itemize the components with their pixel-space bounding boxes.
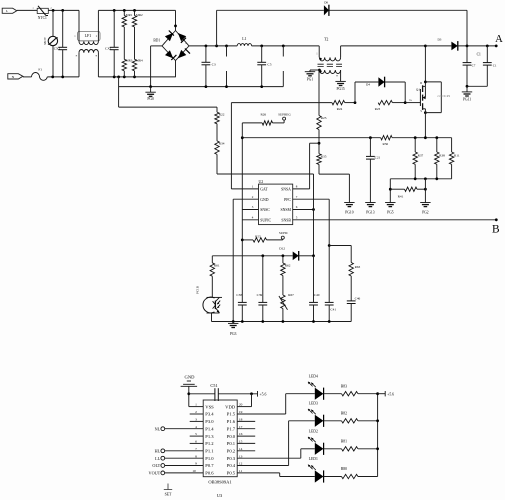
- resistor R62: [282, 256, 284, 263]
- resistor R11: [451, 138, 453, 152]
- svg-text:13: 13: [239, 454, 243, 458]
- inductor L1: [237, 44, 251, 46]
- resistor R55: [241, 239, 244, 242]
- svg-text:PFC: PFC: [284, 198, 291, 202]
- svg-text:SNSA: SNSA: [281, 188, 291, 192]
- svg-text:LED4: LED4: [309, 374, 318, 378]
- svg-text:17: 17: [239, 425, 243, 429]
- svg-text:HL: HL: [155, 448, 161, 453]
- svg-text:P0.7: P0.7: [205, 463, 214, 468]
- svg-text:L1: L1: [242, 37, 246, 41]
- svg-text:P1.7: P1.7: [227, 426, 236, 431]
- svg-text:CX1: CX1: [105, 47, 112, 51]
- resistor MR4: [132, 59, 136, 71]
- svg-text:A: A: [495, 34, 503, 45]
- capacitor C40: [313, 256, 315, 303]
- svg-text:PC1B: PC1B: [195, 285, 199, 294]
- svg-text:11: 11: [239, 469, 243, 473]
- node junction source sense: [424, 136, 427, 139]
- wire pin4 SUPIC: [242, 219, 258, 221]
- node junction NTC-MOV: [52, 9, 55, 12]
- resistor R37: [414, 138, 416, 152]
- wire pin8 SNSA jog: [293, 188, 310, 190]
- wire R22 to R34: [216, 124, 218, 141]
- wire pin5 SNSB B line: [293, 219, 497, 221]
- wire pin19 to LED4: [237, 413, 286, 415]
- svg-text:C46: C46: [355, 296, 361, 300]
- svg-text:L: L: [6, 9, 8, 13]
- svg-text:PG3: PG3: [230, 332, 237, 336]
- wire primary ground rail: [119, 86, 283, 88]
- svg-text:6: 6: [195, 440, 197, 444]
- svg-text:D4: D4: [366, 83, 370, 87]
- net +5.6 left: [257, 391, 259, 397]
- stub jumper W1 lower: [226, 71, 228, 87]
- svg-text:R23: R23: [375, 107, 381, 111]
- wire pin2 GND: [233, 198, 258, 200]
- wire SUPIC vertical: [241, 138, 243, 303]
- svg-text:C38: C38: [236, 293, 242, 297]
- svg-text:3: 3: [195, 418, 197, 422]
- svg-text:15: 15: [239, 440, 243, 444]
- svg-text:7: 7: [296, 195, 298, 199]
- svg-text:P0.2: P0.2: [227, 449, 236, 454]
- diode D4: [378, 77, 384, 87]
- capacitor C46: [350, 276, 352, 301]
- svg-text:S: S: [420, 110, 422, 113]
- node junction R37 top: [414, 136, 417, 139]
- svg-text:SUPIC: SUPIC: [279, 231, 289, 235]
- svg-text:GAT: GAT: [260, 188, 268, 192]
- resistor R26: [262, 121, 272, 125]
- svg-text:7: 7: [195, 447, 197, 451]
- svg-text:BD1: BD1: [153, 39, 160, 43]
- capacitor C3: [205, 46, 207, 62]
- net port SUPREG: [273, 122, 285, 124]
- svg-text:R24: R24: [337, 107, 343, 111]
- svg-text:N: N: [12, 75, 15, 79]
- svg-text:MOV: MOV: [43, 36, 47, 44]
- svg-text:C21: C21: [375, 155, 381, 159]
- capacitor CX1: [113, 9, 116, 12]
- wire R25 to R35: [318, 130, 320, 154]
- svg-text:R11: R11: [454, 154, 460, 158]
- ground PG1: [309, 70, 311, 72]
- MCU U3 box: [203, 400, 237, 477]
- resistor R22: [216, 107, 218, 112]
- svg-text:R37: R37: [418, 154, 424, 158]
- node A terminal: [495, 45, 498, 48]
- svg-text:1: 1: [252, 185, 254, 189]
- svg-text:R82: R82: [341, 412, 347, 416]
- LED LED3: [315, 415, 324, 427]
- svg-text:4: 4: [195, 425, 197, 429]
- wire D3 to A: [458, 45, 496, 47]
- resistor R80: [324, 476, 342, 478]
- bridge diode bottom-right: [178, 50, 186, 58]
- svg-text:P0.4: P0.4: [227, 463, 236, 468]
- resistor R36: [381, 136, 392, 140]
- node junction CX2 top: [61, 9, 64, 12]
- node junction R62 top: [282, 254, 285, 257]
- node junction C3 bottom: [205, 85, 208, 88]
- U3 short stubs left: [190, 413, 204, 415]
- wire bridge negative to ground rail: [151, 45, 162, 47]
- node junction C1 top: [486, 45, 489, 48]
- svg-text:20: 20: [239, 403, 243, 407]
- capacitor C38: [238, 301, 247, 303]
- node junction C5 top: [260, 45, 263, 48]
- svg-text:G: G: [410, 98, 413, 102]
- svg-text:P1.3: P1.3: [205, 434, 214, 439]
- svg-text:2: 2: [96, 35, 98, 38]
- bridge rectifier BD1: [162, 31, 189, 61]
- ground PG11: [466, 86, 468, 92]
- wire top rail LF1 to bridge: [98, 9, 175, 11]
- node junction D4 left: [354, 101, 357, 104]
- svg-text:SNSM: SNSM: [281, 208, 292, 212]
- resistor MR3: [122, 59, 126, 71]
- svg-text:R80: R80: [341, 467, 347, 471]
- svg-text:MR1: MR1: [126, 13, 133, 17]
- svg-text:U2: U2: [259, 180, 264, 184]
- net port SUPIC: [267, 239, 283, 241]
- svg-text:10: 10: [192, 469, 196, 473]
- resistor R23: [378, 100, 392, 104]
- svg-text:NL: NL: [155, 426, 161, 431]
- wire SNSM vertical: [313, 174, 315, 256]
- svg-text:Q1: Q1: [416, 87, 420, 91]
- capacitor C39: [262, 256, 264, 303]
- optocoupler PC1B: [211, 276, 213, 297]
- svg-text:MR2: MR2: [136, 13, 143, 17]
- svg-text:R81: R81: [341, 440, 347, 444]
- connector pin HL: [161, 449, 165, 453]
- connector pin NL: [161, 427, 165, 431]
- svg-text:1: 1: [195, 403, 197, 407]
- wire D12 row: [212, 255, 292, 257]
- wire gate to Q1: [405, 102, 420, 104]
- wire opto emitter to ground rail: [211, 313, 213, 322]
- svg-text:C1: C1: [493, 63, 497, 67]
- svg-text:6: 6: [296, 205, 298, 209]
- svg-text:P0.1: P0.1: [227, 441, 236, 446]
- svg-text:PG11: PG11: [463, 97, 471, 101]
- svg-text:R25: R25: [321, 116, 327, 120]
- svg-text:B: B: [492, 223, 500, 235]
- svg-text:PG1: PG1: [307, 78, 314, 82]
- stub jumper W1 upper: [226, 46, 228, 57]
- svg-text:14: 14: [239, 447, 243, 451]
- svg-text:CX2: CX2: [54, 47, 61, 51]
- svg-text:R35: R35: [321, 154, 327, 158]
- wire GND to C51 rail: [188, 386, 190, 406]
- wire SUPREG branch: [241, 123, 243, 138]
- bridge diode top-left: [165, 33, 173, 41]
- resistor R35: [317, 154, 321, 165]
- svg-text:SNSC: SNSC: [260, 208, 270, 212]
- svg-text:C40: C40: [314, 293, 320, 297]
- wire R35 to PG10: [318, 164, 320, 174]
- capacitor C7: [466, 46, 468, 63]
- wire D12 to SNSM node: [299, 255, 314, 257]
- node junction PG0: [149, 85, 152, 88]
- wire R34 to SNSM line: [216, 154, 218, 174]
- wire boost top rail right leg: [466, 10, 468, 46]
- resistor R34: [215, 141, 219, 155]
- svg-text:+5.6: +5.6: [387, 393, 394, 397]
- resistor MR2: [133, 9, 136, 12]
- svg-text:R26: R26: [260, 113, 266, 117]
- resistor R63: [350, 246, 352, 263]
- svg-text:1: 1: [32, 7, 34, 10]
- wire pin12 to LED3: [237, 465, 288, 467]
- connector pin VOUT: [161, 471, 165, 475]
- svg-text:R22: R22: [219, 112, 225, 116]
- resistor R82: [324, 420, 342, 422]
- fuse F1: [32, 73, 48, 81]
- svg-text:2: 2: [195, 410, 197, 414]
- transformer T2 core: [318, 63, 343, 65]
- svg-text:C5: C5: [267, 62, 271, 66]
- svg-text:PG2: PG2: [422, 211, 429, 215]
- ground PG3: [228, 322, 238, 324]
- node junction C3 top: [205, 45, 208, 48]
- connector J2 N input tag: [8, 74, 23, 79]
- wire NTC1 to LF1 top rail: [48, 9, 79, 11]
- svg-text:P1.6: P1.6: [227, 419, 236, 424]
- svg-text:P0.3: P0.3: [227, 456, 236, 461]
- node junction R38 top: [435, 136, 438, 139]
- wire source to sense rail: [424, 109, 426, 138]
- svg-text:LED2: LED2: [309, 430, 318, 434]
- svg-text:LED1: LED1: [309, 457, 318, 461]
- svg-text:NTC1: NTC1: [38, 16, 47, 20]
- svg-text:1: 1: [316, 53, 318, 56]
- ground PG13: [365, 202, 375, 204]
- svg-text:D12: D12: [279, 246, 285, 250]
- svg-text:R83: R83: [341, 384, 347, 388]
- diode D12: [293, 252, 299, 261]
- capacitor C5: [261, 46, 263, 62]
- wire switch node to D3: [425, 45, 451, 47]
- svg-text:18: 18: [239, 418, 243, 422]
- svg-text:*: *: [336, 74, 338, 79]
- svg-text:F1: F1: [38, 68, 42, 72]
- wire F1 to LF1 bottom rail: [47, 76, 79, 78]
- wire DC+ rail bridge to L1: [189, 45, 237, 47]
- wire pin11 to LED1: [237, 472, 280, 474]
- wire bottom rail LF1 to bridge: [98, 76, 175, 78]
- svg-text:16: 16: [239, 432, 243, 436]
- svg-text:R34: R34: [219, 142, 225, 146]
- svg-text:R63: R63: [355, 265, 361, 269]
- node junction gate: [404, 101, 407, 104]
- svg-text:GND: GND: [185, 375, 196, 380]
- wire R63 branch: [329, 245, 351, 247]
- snubber capacitor C15 loop: [424, 81, 427, 84]
- svg-text:P1.0: P1.0: [205, 456, 214, 461]
- svg-text:PG0: PG0: [147, 97, 154, 101]
- svg-text:MR4: MR4: [136, 59, 143, 63]
- node junction MOV bottom: [51, 76, 54, 79]
- node junction VDD: [250, 392, 253, 395]
- diode D4 branch: [354, 82, 356, 103]
- transformer T2 aux winding: [319, 70, 340, 73]
- ground PG10: [344, 202, 354, 204]
- svg-text:R62: R62: [285, 264, 291, 268]
- LED LED1: [315, 470, 324, 482]
- svg-text:SNSB: SNSB: [281, 219, 291, 223]
- choke LF1 bottom winding: [78, 53, 80, 77]
- svg-text:R38: R38: [439, 154, 445, 158]
- connector pin LL: [161, 456, 165, 460]
- svg-text:SUPREG: SUPREG: [278, 112, 291, 116]
- varistor MOV: [52, 10, 54, 36]
- op-amp U2 controller box: [259, 184, 293, 225]
- diode D8: [324, 5, 329, 15]
- svg-text:R41: R41: [398, 194, 404, 198]
- svg-text:PG13: PG13: [366, 211, 374, 215]
- wire aux right to PG15: [340, 70, 342, 81]
- wire pin1 GAT: [231, 188, 258, 190]
- svg-text:VSS: VSS: [205, 404, 214, 409]
- wire VSS pin1: [189, 406, 203, 408]
- node junction C39 top: [261, 254, 264, 257]
- ground PG15: [335, 80, 345, 82]
- wire gate line: [231, 102, 332, 104]
- net +5.6 right: [378, 393, 386, 395]
- resistor R25: [317, 116, 321, 130]
- wire pin7 PFC: [293, 198, 330, 200]
- capacitor CX2: [62, 10, 64, 47]
- U3 short stubs right: [237, 413, 255, 415]
- resistor R41: [390, 188, 404, 190]
- svg-text:C3: C3: [212, 62, 216, 66]
- svg-text:19: 19: [239, 410, 243, 414]
- wire pin13 to LED2: [237, 457, 301, 459]
- svg-text:*: *: [95, 54, 97, 59]
- LED LED2: [315, 443, 324, 455]
- svg-text:5: 5: [195, 432, 197, 436]
- svg-text:C15: C15: [444, 94, 450, 98]
- svg-text:D8: D8: [324, 1, 328, 5]
- diode D3: [451, 42, 457, 51]
- svg-text:P1.2: P1.2: [205, 441, 214, 446]
- node junction C5 bottom: [260, 85, 263, 88]
- svg-text:R36: R36: [382, 142, 388, 146]
- svg-text:C51: C51: [210, 383, 217, 388]
- svg-text:VDD: VDD: [225, 404, 236, 409]
- resistor R38: [436, 138, 438, 152]
- common mode choke LF1 box: [78, 31, 100, 41]
- resistor R24: [332, 100, 345, 104]
- capacitor C51: [189, 393, 215, 395]
- wire R24 to gate node: [345, 102, 355, 104]
- node junction SNSA: [318, 142, 321, 145]
- wire pin3 SNSC: [242, 209, 258, 211]
- wire C1 bottom to C7 bottom: [467, 85, 487, 87]
- svg-text:2200: 2200: [437, 94, 444, 98]
- node junction C21: [369, 136, 372, 139]
- wire LED supply rail: [377, 394, 379, 477]
- wire T2 primary right to switch node: [340, 46, 342, 58]
- connector pin OLT: [161, 464, 165, 468]
- svg-text:D: D: [420, 82, 422, 85]
- wire sense bottom rail: [390, 178, 451, 180]
- wire bridge bottom to AC rail: [175, 61, 177, 77]
- capacitor C21: [369, 138, 371, 157]
- svg-text:SUPIC: SUPIC: [260, 219, 271, 223]
- svg-text:C39: C39: [257, 293, 263, 297]
- svg-text:*: *: [76, 55, 78, 59]
- resistor R83: [324, 393, 342, 395]
- wire boost top rail left leg: [216, 10, 218, 46]
- wire boost top rail: [217, 9, 324, 11]
- svg-text:PG5: PG5: [387, 211, 394, 215]
- svg-text:SET: SET: [165, 492, 172, 496]
- capacitor C1: [486, 46, 488, 63]
- svg-text:OB38S09A1: OB38S09A1: [208, 480, 231, 485]
- wire sense rail: [392, 137, 452, 139]
- svg-text:8: 8: [296, 185, 298, 189]
- wire GAT riser: [230, 103, 232, 189]
- connector J1 L input tag: [2, 8, 17, 13]
- svg-text:R55: R55: [255, 234, 261, 238]
- transistor Q1 MOSFET: [419, 89, 421, 106]
- svg-text:+5.6: +5.6: [260, 393, 267, 397]
- wire L to NTC1: [17, 9, 37, 11]
- svg-text:2: 2: [252, 195, 254, 199]
- svg-text:P0.0: P0.0: [227, 434, 236, 439]
- svg-text:5: 5: [296, 216, 298, 220]
- svg-text:P0.6: P0.6: [205, 471, 214, 476]
- svg-text:P1.5: P1.5: [227, 412, 236, 417]
- wire sense line: [242, 137, 380, 139]
- svg-text:GND: GND: [260, 198, 268, 202]
- svg-text:P3.4: P3.4: [205, 412, 214, 417]
- wire bridge top: [175, 10, 177, 30]
- thermistor R67: [282, 276, 284, 296]
- svg-text:D3: D3: [437, 38, 441, 42]
- resistor MR1: [123, 9, 126, 12]
- thermistor NTC1: [37, 8, 48, 13]
- node B terminal: [495, 218, 498, 221]
- bridge diode top-right: [178, 33, 186, 41]
- bridge diode bottom-left: [165, 50, 173, 58]
- node junction boost rail: [215, 45, 218, 48]
- wire drain: [424, 46, 426, 87]
- ground PG2: [420, 202, 430, 204]
- svg-text:C41: C41: [330, 308, 336, 312]
- wire mains sense tap: [117, 76, 120, 79]
- svg-text:P1.4: P1.4: [205, 426, 214, 431]
- wire secondary ground rail: [212, 321, 352, 323]
- svg-text:PG15: PG15: [336, 87, 344, 91]
- svg-text:OLT: OLT: [152, 463, 160, 468]
- svg-text:U3: U3: [217, 493, 223, 498]
- resistor R81: [324, 448, 342, 450]
- ground PG5: [385, 202, 395, 204]
- wire L1 to T2 primary: [252, 45, 320, 47]
- svg-text:C1: C1: [477, 53, 481, 57]
- svg-text:P1.1: P1.1: [205, 449, 214, 454]
- node junction C7 top: [466, 45, 469, 48]
- capacitor C41: [328, 199, 330, 302]
- svg-text:9: 9: [195, 462, 197, 466]
- svg-text:3: 3: [252, 205, 254, 209]
- net port SET: [167, 484, 169, 490]
